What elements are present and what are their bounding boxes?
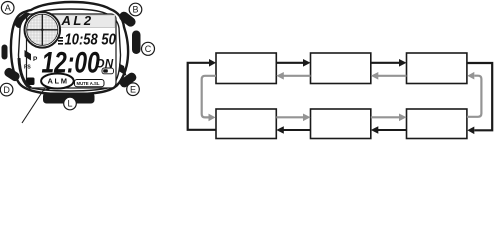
svg-text:D: D [3, 85, 10, 95]
black arrow bottom row 3->2 [371, 126, 407, 134]
ALM balloon [41, 74, 74, 92]
gray arrow top row 2->1 [276, 72, 310, 80]
gray arrow bottom row 2->3 [371, 114, 407, 122]
black wire left (bottom-1 to top-1) [188, 59, 216, 130]
svg-text:L: L [67, 99, 72, 109]
AL2 banner band [46, 15, 115, 28]
hatch wedge left of display [25, 50, 32, 61]
mode box top-3 [407, 53, 467, 84]
strap bottom band [43, 93, 95, 104]
bezel [19, 9, 121, 91]
label A [1, 2, 14, 15]
black arrow top row 1->2 [276, 59, 310, 67]
svg-text:PS: PS [24, 65, 31, 71]
P indicator [33, 56, 38, 63]
mode box bottom-1 [216, 109, 276, 139]
gray arrow bottom row 1->2 [276, 114, 310, 122]
label D [0, 83, 13, 96]
button right (C) [132, 31, 141, 55]
black wire right (top-3 to bottom-3) [467, 63, 492, 134]
ON text [96, 59, 114, 71]
subdial [25, 12, 61, 48]
watch case [11, 2, 128, 95]
button top-left (A) [13, 11, 34, 30]
12:00 big digits [42, 45, 100, 79]
gray wire right (bottom-3 to top-3) [467, 72, 482, 117]
label B [129, 3, 142, 16]
PS indicator [24, 65, 31, 71]
mode box bottom-2 [311, 109, 371, 139]
svg-text:P: P [33, 56, 38, 63]
svg-text:MUTE A.SL: MUTE A.SL [77, 81, 100, 86]
label E [127, 83, 140, 96]
button top-right (B) [117, 10, 137, 29]
10:58 50 text [65, 32, 116, 49]
mode box top-2 [311, 53, 371, 84]
bezel shade above E [119, 64, 127, 77]
mode box top-1 [216, 53, 276, 84]
bezel lower-left shade [19, 58, 31, 88]
button bottom-left (D) [3, 66, 21, 82]
gray arrow top row 3->2 [371, 72, 407, 80]
label L [64, 97, 77, 110]
svg-text:B: B [132, 5, 138, 15]
MUTE A.SL box [75, 80, 105, 87]
bars icon [58, 37, 63, 45]
button left [2, 45, 8, 60]
dark indicator box [27, 78, 35, 86]
svg-text:ALM: ALM [48, 77, 69, 86]
black arrow top row 2->3 [371, 59, 407, 67]
mode box bottom-3 [407, 109, 467, 139]
black arrow bottom row 2->1 [276, 126, 310, 134]
pointer line [22, 89, 45, 124]
svg-text:E: E [130, 84, 136, 94]
label C [142, 42, 155, 55]
svg-text:A: A [5, 3, 11, 13]
gray wire left (top-1 to bottom-1) [202, 76, 216, 121]
display window [27, 14, 117, 88]
button bottom-right (E) [118, 71, 138, 89]
svg-text:AL2: AL2 [61, 13, 94, 28]
AL2 text [61, 13, 94, 28]
svg-text:C: C [145, 44, 152, 54]
seconds icon box [102, 68, 114, 74]
